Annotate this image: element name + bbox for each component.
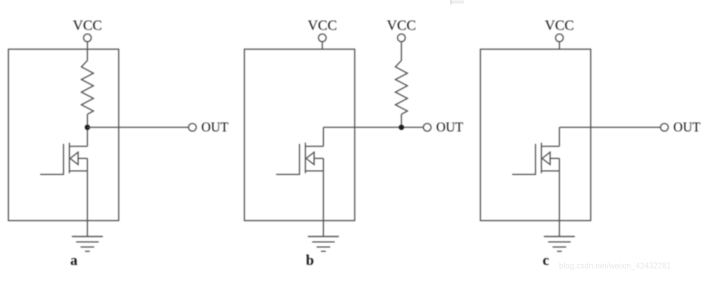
svg-text:a: a (70, 253, 78, 269)
transistor Q (c) (512, 143, 559, 175)
svg-text:VCC: VCC (73, 18, 102, 34)
wire source to ground (b) (322, 171, 324, 237)
resistor R (pull-up inside, a) (81, 61, 93, 115)
wire VCC to box (b) (321, 42, 323, 50)
wire drain up to output line (b) (322, 127, 324, 146)
OUT terminal circle (c) (661, 123, 669, 131)
wire output line (b) (323, 126, 423, 128)
svg-text:OUT: OUT (201, 120, 228, 135)
svg-text:VCC: VCC (308, 18, 337, 34)
wire output line (c) (559, 126, 660, 128)
wire drain up to output line (c) (558, 127, 560, 146)
wire source to ground (a) (86, 171, 88, 237)
VCC terminal circle (circuit a) (84, 34, 92, 42)
IC box (c) (480, 49, 590, 220)
VCC terminal circle (circuit c) (556, 34, 564, 42)
transistor Q (a) (40, 143, 87, 175)
VCC terminal circle (circuit b, on-chip) (318, 34, 326, 42)
svg-text:b: b (306, 253, 314, 269)
svg-text:OUT: OUT (436, 120, 463, 135)
VCC terminal circle (circuit b, external pull-up) (398, 34, 406, 42)
wire VCC to box (a) (86, 42, 88, 61)
wire resistor to node (a) (86, 114, 88, 146)
OUT terminal circle (a) (189, 123, 197, 131)
IC box (a) (8, 49, 118, 220)
resistor R (external pull-up, b) (395, 61, 407, 115)
cropped watermark remnant, top center (450, 0, 452, 5)
svg-text:c: c (543, 253, 550, 269)
svg-text:VCC: VCC (387, 18, 416, 34)
transistor Q (b) (276, 143, 323, 175)
svg-text:VCC: VCC (545, 18, 574, 34)
wire resistor to node (b) (400, 114, 402, 127)
ground (a) (72, 237, 103, 252)
OUT terminal circle (b) (423, 123, 431, 131)
wire source to ground (c) (558, 171, 560, 237)
IC box (b) (244, 49, 354, 220)
ground (c) (544, 237, 575, 252)
wire VCC to resistor (b) (400, 42, 402, 61)
wire node to OUT (a) (87, 126, 188, 128)
ground (b) (308, 237, 339, 252)
node: resistor/OUT junction (b) (399, 125, 404, 130)
node: drain/OUT junction (a) (85, 125, 90, 130)
svg-text:OUT: OUT (673, 120, 700, 135)
wire VCC to box (c) (558, 42, 560, 50)
svg-text:blog.csdn.net/weixin_42432281: blog.csdn.net/weixin_42432281 (559, 262, 672, 271)
